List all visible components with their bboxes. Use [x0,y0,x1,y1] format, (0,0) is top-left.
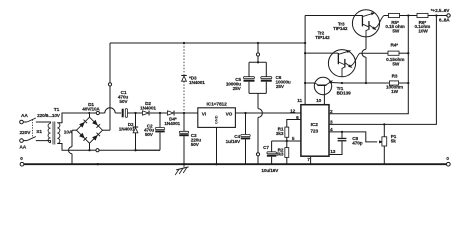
node C2 top [159,112,161,114]
wire R4 to riser [399,52,408,54]
svg-text:50V: 50V [191,142,200,147]
pin 5 wire [272,136,301,142]
svg-text:GND: GND [214,115,219,124]
svg-text:11: 11 [297,98,302,104]
svg-text:VO: VO [226,112,233,118]
output terminal plus [431,8,451,24]
resistor R4 [386,43,404,67]
capacitor C8 [329,132,363,155]
node R3 on riser [407,82,409,84]
svg-text:1N4001: 1N4001 [119,127,135,132]
switch S1 [23,118,42,141]
wire raw to C5C6 top [257,43,259,62]
terminal 0 right [446,156,450,166]
connector circle on raw riser [108,83,111,86]
node P1 top [383,123,385,125]
pin 2 wire [329,16,408,115]
svg-text:5k: 5k [391,139,396,144]
wire bus to R3 [342,82,389,84]
svg-text:IC2: IC2 [311,122,319,128]
diode D3 (optional, dashed) [181,43,205,113]
node C5C6 top center [257,61,259,63]
svg-text:C7: C7 [263,145,269,150]
node C8 top [341,131,343,133]
wire Tr3 base down to bus (hop over R4 wire) [362,37,366,83]
resistor R2 [276,141,289,164]
ground symbol [175,164,188,175]
connector circle on C5C6 feed [256,53,259,56]
svg-text:10A: 10A [64,130,73,136]
wire AC lower run [90,149,161,151]
resistor R1 [276,127,289,138]
resistor R6 [414,13,430,33]
node mystery on rail [97,163,99,165]
svg-text:1N4001: 1N4001 [140,105,156,110]
svg-text:AA: AA [19,144,26,150]
node D3 on raw rail [183,42,185,44]
wire VC riser pin11 [304,16,306,105]
svg-text:25V: 25V [233,86,242,91]
svg-text:1N4001: 1N4001 [189,80,205,85]
svg-text:IC1=7812: IC1=7812 [207,102,228,108]
wire C5C6 bottom to rail (hop over VO line) [258,93,262,164]
capacitor C7 [261,141,279,173]
label 220V [19,130,31,136]
pin 10 [316,95,324,105]
terminal 0 left [20,156,24,166]
bottom 0V rail [24,163,447,165]
connector circle on C5C6 ground leg [256,153,259,156]
connector circle on main line [96,111,99,114]
pin 11 [297,98,302,104]
svg-text:10u/16V: 10u/16V [261,168,279,173]
svg-text:*+2.5..6V: *+2.5..6V [431,8,451,14]
pin 4 wire [329,127,384,143]
transistor Tr1 BD139 [305,77,351,95]
pin 7 [307,156,310,164]
node Tr3 base on bus [365,82,367,84]
svg-text:5W: 5W [392,29,399,34]
node raw rail to VC riser [304,42,306,44]
svg-text:6..8A: 6..8A [439,18,450,24]
svg-text:10W: 10W [418,29,428,34]
svg-text:10: 10 [316,98,322,104]
wire secondary top to bridge [57,113,89,123]
svg-text:5W: 5W [392,61,399,66]
svg-text:1N4001: 1N4001 [164,121,180,126]
svg-text:BD139: BD139 [337,90,352,95]
pin 6 wire to R1 [287,115,301,127]
diode D2 (shunt) [119,113,138,150]
resistor R3 [386,73,403,93]
pin 3 wire [329,16,436,126]
node output sense junction [435,14,437,16]
bridge rectifier D1 [72,102,110,150]
capacitor C1 [118,90,129,117]
diode D2 (series) [140,101,156,116]
wire bridge minus to 0V rail (hop over AC wire) [69,130,72,164]
capacitor C3 [179,113,201,164]
node Tr1 collector on VC riser [304,82,306,84]
node D2 shunt bottom [134,149,136,151]
wire D4 to IC1 [175,112,198,114]
node bridge AC top [88,112,90,114]
wire bridge plus up to raw rail [109,43,111,130]
wire switch to transformer primary top [36,122,51,123]
connector circle on AC wire [96,149,99,152]
resistor R5 [385,13,404,33]
svg-text:TIP142: TIP142 [315,35,330,40]
capacitor C4 [226,113,251,164]
wire switch to transformer primary bottom [36,141,51,143]
node D2 shunt top [134,112,136,114]
svg-text:VI: VI [202,112,206,118]
node C3 ground [183,163,185,165]
node bridge AC bottom [88,149,90,151]
svg-text:12: 12 [290,109,296,115]
svg-text:TIP142: TIP142 [333,26,348,31]
node R5 R6 junction [407,14,409,16]
pin 12 label [290,109,296,115]
wire C1 to D2 [127,112,142,114]
transistor Tr2 TIP142 [305,30,360,76]
transformer T1 [37,107,73,144]
diode D4 (series) [164,111,180,127]
wire Tr2 emitter to R4 [360,52,388,54]
svg-text:50V: 50V [119,99,128,105]
node C5C6 on raw rail [257,42,259,44]
wire IC1 GND to rail [216,127,218,164]
terminal AA (mains live) [20,113,29,124]
IC2 723 [301,105,329,157]
svg-text:R3: R3 [392,73,398,78]
node C4 top [244,112,246,114]
wire Tr3 emitter to R5 [384,15,389,17]
svg-text:C4: C4 [234,134,240,139]
svg-text:723: 723 [310,128,318,134]
transistor Tr3 TIP142 [305,10,384,37]
wire main line with hop over raw riser [91,108,121,113]
capacitor C6 [249,62,291,93]
svg-text:25V: 25V [276,84,285,89]
svg-text:220V: 220V [19,130,31,136]
svg-text:470p: 470p [352,140,362,145]
svg-text:S1: S1 [36,129,42,135]
svg-text:3k3: 3k3 [276,131,284,136]
node R4 on riser [407,52,409,54]
capacitor C5 [226,62,255,93]
svg-text:50V: 50V [145,132,154,137]
svg-text:13: 13 [330,149,336,155]
capacitor C2 [136,113,165,150]
wire IC1 VO to IC2 pin12 [235,112,301,114]
svg-text:AA: AA [21,113,28,119]
wire R3 to riser [399,82,409,84]
svg-text:40V/10A: 40V/10A [82,107,100,112]
svg-text:220/9...10V: 220/9...10V [37,113,61,118]
node IC1 gnd on rail [215,163,217,165]
wire secondary bottom to AC line [57,144,89,151]
svg-text:3k3: 3k3 [276,152,284,157]
node Tr2 collector on VC riser [304,52,306,54]
node R1 R2 junction [286,140,288,142]
node Tr2 base on bus [341,82,343,84]
wire R1 to node [286,137,288,141]
svg-text:1u/16V: 1u/16V [226,139,241,144]
svg-text:R4*: R4* [390,43,398,48]
terminal AA (mains neutral) [19,139,26,151]
node C3 / D3 junction [183,112,185,114]
wire D2 to D4 [150,112,167,114]
wire R5 to R6 [400,15,418,17]
wire raw rail [110,42,305,44]
wire R6 to output terminal [428,15,447,17]
regulator IC1 7812 [198,102,236,128]
potentiometer P1 [382,124,397,164]
svg-text:1W: 1W [391,89,398,94]
